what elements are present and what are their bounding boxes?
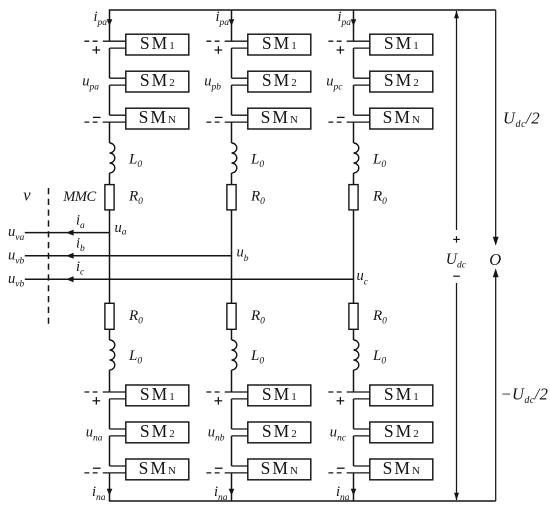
wire U_dc measurement line upper segment	[456, 11, 458, 230]
submodule SMN (phase-c upper arm)	[370, 107, 433, 129]
submodule SM1 (phase-a upper arm)	[126, 33, 189, 55]
inductor L0 (phase-a upper arm)	[110, 143, 115, 173]
wire pins of SM1 (phase-a lower arm)	[103, 392, 127, 399]
inductor L0 (phase-b lower arm)	[232, 340, 237, 370]
wire pins of SMN (phase-a lower arm)	[103, 466, 127, 473]
current arrow i_b	[66, 253, 74, 259]
polarity + (phase-c lower arm)	[337, 397, 345, 405]
polarity - (phase-b lower arm)	[215, 467, 223, 469]
polarity + (phase-b upper arm)	[215, 46, 223, 54]
wire bottom DC rail	[109, 500, 496, 502]
dashed lead at + terminal (phase-b lower arm)	[206, 391, 221, 393]
submodule SM1 (phase-c lower arm)	[370, 384, 433, 406]
polarity - (phase-c upper arm)	[337, 116, 345, 118]
wire pins of SM1 (phase-c upper arm)	[347, 41, 371, 48]
polarity - (phase-c lower arm)	[337, 467, 345, 469]
current arrow i_pa (phase-a upper)	[107, 19, 113, 26]
current arrow i_na (phase-c lower)	[351, 489, 357, 496]
dashed lead at + terminal (phase-c upper arm)	[328, 40, 343, 42]
wire pins of SMN (phase-a upper arm)	[103, 115, 127, 122]
dashed lead at - terminal (phase-a upper arm)	[84, 121, 99, 123]
submodule SM2 (phase-c lower arm)	[370, 421, 433, 443]
wire phase-b bus	[231, 10, 233, 501]
current arrow i_c	[66, 276, 74, 282]
dashed lead at + terminal (phase-a upper arm)	[84, 40, 99, 42]
wire AC phase-b line (node u_b to u_vb terminal)	[25, 255, 232, 257]
wire U_dc measurement line lower segment	[456, 283, 458, 500]
svg-text:O: O	[489, 250, 501, 269]
dashed lead at + terminal (phase-b upper arm)	[206, 40, 221, 42]
wire pins of SMN (phase-c lower arm)	[347, 466, 371, 473]
polarity + of U_dc	[453, 236, 460, 243]
polarity - (phase-a lower arm)	[93, 467, 101, 469]
current arrow i_pa (phase-c upper)	[351, 19, 357, 26]
svg-text:v: v	[23, 185, 31, 204]
wire phase-c bus	[353, 10, 355, 501]
dashed lead at - terminal (phase-c upper arm)	[328, 121, 343, 123]
wire O reference lower segment	[495, 275, 497, 501]
wire pins of SMN (phase-c upper arm)	[347, 115, 371, 122]
submodule SMN (phase-b upper arm)	[248, 107, 311, 129]
wire pins of SM1 (phase-a upper arm)	[103, 41, 127, 48]
wire AC phase-c line (node u_c to u_vc terminal)	[25, 278, 354, 280]
wire pins of SM2 (phase-a upper arm)	[110, 78, 127, 85]
wire pins of SMN (phase-b upper arm)	[225, 115, 249, 122]
submodule SM2 (phase-a upper arm)	[126, 70, 189, 92]
wire pins of SM2 (phase-c lower arm)	[354, 429, 371, 436]
submodule SMN (phase-a upper arm)	[126, 107, 189, 129]
submodule SM1 (phase-b upper arm)	[248, 33, 311, 55]
polarity - (phase-a upper arm)	[93, 116, 101, 118]
submodule SM2 (phase-a lower arm)	[126, 421, 189, 443]
resistor R0 (phase-c lower arm)	[349, 303, 358, 329]
inductor L0 (phase-b upper arm)	[232, 143, 237, 173]
inductor L0 (phase-c upper arm)	[354, 143, 359, 173]
wire pins of SM1 (phase-b upper arm)	[225, 41, 249, 48]
polarity + (phase-a lower arm)	[93, 397, 101, 405]
arrowhead down at O (upper)	[493, 237, 499, 246]
polarity - of U_dc	[453, 275, 460, 277]
polarity + (phase-a upper arm)	[93, 46, 101, 54]
current arrow i_na (phase-a lower)	[107, 489, 113, 496]
wire pins of SM2 (phase-a lower arm)	[110, 429, 127, 436]
dashed lead at - terminal (phase-b upper arm)	[206, 121, 221, 123]
wire pins of SM1 (phase-c lower arm)	[347, 392, 371, 399]
submodule SMN (phase-b lower arm)	[248, 458, 311, 480]
svg-text:MMC: MMC	[62, 189, 96, 205]
submodule SM1 (phase-c upper arm)	[370, 33, 433, 55]
submodule SMN (phase-c lower arm)	[370, 458, 433, 480]
dashed boundary line v	[48, 188, 50, 328]
wire top DC rail	[109, 9, 496, 11]
wire pins of SMN (phase-b lower arm)	[225, 466, 249, 473]
resistor R0 (phase-b lower arm)	[227, 303, 236, 329]
submodule SM2 (phase-c upper arm)	[370, 70, 433, 92]
submodule SM2 (phase-b lower arm)	[248, 421, 311, 443]
arrowhead up at O (lower)	[493, 268, 499, 277]
current arrow i_pa (phase-b upper)	[229, 19, 235, 26]
resistor R0 (phase-a upper arm)	[105, 185, 114, 210]
arrowhead down U_dc	[454, 493, 459, 501]
wire phase-a bus	[109, 10, 111, 501]
dashed lead at - terminal (phase-a lower arm)	[84, 472, 99, 474]
submodule SMN (phase-a lower arm)	[126, 458, 189, 480]
wire pins of SM2 (phase-b upper arm)	[232, 78, 249, 85]
dashed lead at - terminal (phase-b lower arm)	[206, 472, 221, 474]
inductor L0 (phase-a lower arm)	[110, 340, 115, 370]
wire AC phase-a line (node u_a to u_va terminal)	[25, 232, 110, 234]
arrowhead up U_dc	[454, 11, 459, 18]
resistor R0 (phase-b upper arm)	[227, 185, 236, 210]
submodule SM2 (phase-b upper arm)	[248, 70, 311, 92]
dashed lead at + terminal (phase-c lower arm)	[328, 391, 343, 393]
wire O reference upper segment	[495, 10, 497, 239]
resistor R0 (phase-a lower arm)	[105, 303, 114, 329]
submodule SM1 (phase-b lower arm)	[248, 384, 311, 406]
dashed lead at - terminal (phase-c lower arm)	[328, 472, 343, 474]
polarity + (phase-c upper arm)	[337, 46, 345, 54]
wire pins of SM1 (phase-b lower arm)	[225, 392, 249, 399]
current arrow i_a	[66, 230, 74, 236]
wire pins of SM2 (phase-b lower arm)	[232, 429, 249, 436]
polarity - (phase-b upper arm)	[215, 116, 223, 118]
resistor R0 (phase-c upper arm)	[349, 185, 358, 210]
current arrow i_na (phase-b lower)	[229, 489, 235, 496]
submodule SM1 (phase-a lower arm)	[126, 384, 189, 406]
polarity + (phase-b lower arm)	[215, 397, 223, 405]
inductor L0 (phase-c lower arm)	[354, 340, 359, 370]
wire pins of SM2 (phase-c upper arm)	[354, 78, 371, 85]
dashed lead at + terminal (phase-a lower arm)	[84, 391, 99, 393]
